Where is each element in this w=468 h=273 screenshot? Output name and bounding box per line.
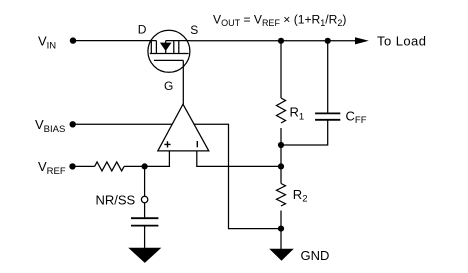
svg-text:VREF: VREF	[38, 159, 66, 177]
svg-text:VBIAS: VBIAS	[35, 117, 65, 135]
ground symbol GND	[269, 249, 294, 261]
wire R2 to ground node	[280, 211, 282, 229]
op-amp noninverting input marker	[164, 141, 170, 147]
wire R1 to CFF node	[280, 128, 282, 145]
wire CFF branch top	[327, 41, 329, 113]
svg-text:VOUT = VREF × (1+R1/R2): VOUT = VREF × (1+R1/R2)	[213, 13, 346, 29]
wire VBIAS to op-amp	[73, 123, 173, 125]
wire op-amp ground rail	[194, 124, 281, 228]
wire source to load rail	[190, 40, 356, 42]
terminal dot VIN	[70, 37, 76, 43]
wire NR/SS pin to capacitor	[144, 203, 146, 218]
resistor R1	[277, 98, 286, 123]
wire feedback node to R2	[280, 166, 282, 183]
svg-text:G: G	[164, 79, 173, 93]
junction dot feedback node	[278, 163, 284, 169]
op-amp inverting input marker	[196, 141, 198, 147]
junction dot ground node	[278, 226, 284, 232]
svg-text:R1: R1	[290, 105, 305, 123]
transistor Q1 PMOS pass FET	[148, 30, 190, 72]
svg-text:R2: R2	[293, 187, 308, 205]
capacitor CFF	[315, 113, 340, 119]
svg-text:NR/SS: NR/SS	[96, 192, 136, 207]
capacitor CSS	[131, 218, 158, 225]
junction dot REF node	[142, 163, 148, 169]
svg-text:S: S	[190, 23, 198, 37]
ground symbol NR/SS	[128, 248, 161, 263]
wire VREF to series resistor	[73, 165, 95, 167]
terminal dot VBIAS	[70, 121, 76, 127]
wire capacitor to ground	[144, 227, 146, 250]
junction dot R1 CFF node	[278, 142, 284, 148]
terminal dot VREF	[69, 163, 75, 169]
op-amp U1 error amplifier	[158, 104, 209, 151]
svg-text:D: D	[138, 23, 147, 37]
resistor R2	[277, 184, 286, 207]
svg-text:VIN: VIN	[38, 34, 56, 52]
wire junction to NR/SS pin	[144, 166, 146, 196]
wire resistor to junction	[124, 165, 145, 167]
wire CFF node to feedback node	[280, 145, 282, 166]
wire noninverting input	[145, 151, 170, 167]
junction dot CFF tap	[325, 38, 331, 44]
wire R1 branch top	[280, 41, 282, 98]
wire inverting input to feedback node	[197, 151, 281, 167]
wire ground node to GND symbol	[280, 229, 282, 249]
arrowhead to load	[355, 37, 369, 44]
wire gate to op-amp output	[182, 60, 184, 104]
svg-text:CFF: CFF	[346, 108, 367, 126]
wire VIN to transistor drain	[73, 40, 156, 42]
resistor series REF	[95, 162, 124, 171]
wire CFF to node	[281, 120, 328, 145]
NR/SS pin circle	[141, 196, 147, 202]
svg-text:To Load: To Load	[377, 33, 426, 48]
svg-text:GND: GND	[301, 248, 330, 263]
junction dot R1 tap	[278, 38, 284, 44]
